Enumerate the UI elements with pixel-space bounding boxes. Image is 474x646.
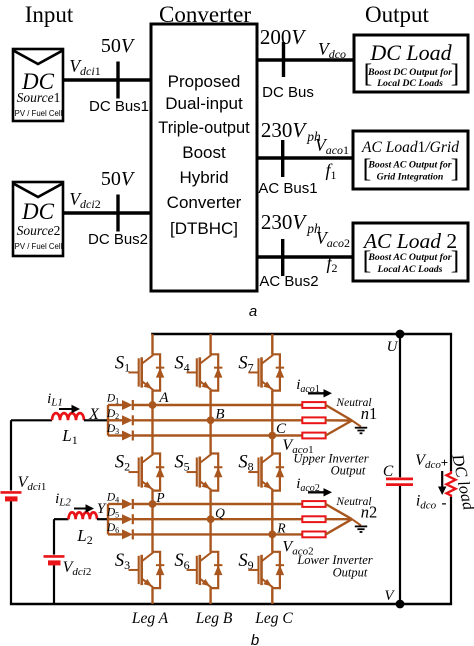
svg-text:DC: DC <box>21 199 55 224</box>
svg-text:Vdci1: Vdci1 <box>69 56 100 78</box>
svg-text:Y: Y <box>97 501 107 517</box>
wire input1 left rail upper <box>10 420 12 490</box>
wire row D4 left <box>108 503 122 505</box>
svg-text:f1: f1 <box>325 160 336 182</box>
wire capacitor rail upper <box>399 334 401 477</box>
wire row D1 to loads <box>133 404 302 406</box>
transistor S3 <box>129 552 165 588</box>
svg-text:Output: Output <box>365 2 430 27</box>
wire leg C collector from bus <box>271 334 273 354</box>
wire row D5 left <box>108 518 122 520</box>
svg-text:Proposed: Proposed <box>168 72 241 91</box>
svg-text:Source2: Source2 <box>17 223 61 238</box>
node Y bar <box>107 504 109 534</box>
load resistor phase 2 (inverter 2) <box>302 516 325 522</box>
wire bottom return bus <box>10 603 452 606</box>
svg-text:Dual-input: Dual-input <box>165 94 243 113</box>
svg-text:b: b <box>251 632 259 646</box>
wire row D4 to loads <box>133 503 302 505</box>
svg-text:S9: S9 <box>238 551 253 572</box>
node X bar <box>107 405 109 436</box>
wire row D5 to loads <box>133 518 302 520</box>
diode D2 <box>122 415 133 425</box>
svg-text:D2: D2 <box>106 408 119 421</box>
arrow iL2 <box>74 504 94 512</box>
svg-text:Vdci2: Vdci2 <box>63 559 92 578</box>
wire leg C segment 1 <box>271 391 273 454</box>
svg-text:Vaco2: Vaco2 <box>316 228 350 250</box>
svg-text:]: ] <box>451 246 460 275</box>
svg-text:B: B <box>215 407 224 423</box>
svg-text:idco: idco <box>416 493 437 512</box>
wire Vdci2 to converter <box>63 211 151 214</box>
svg-text:Source1: Source1 <box>17 90 61 105</box>
arrow idco <box>438 471 446 495</box>
svg-text:Triple-output: Triple-output <box>158 119 250 137</box>
wire row D6 left <box>108 533 122 535</box>
svg-text:PV / Fuel Cell: PV / Fuel Cell <box>15 242 63 251</box>
svg-text:DC Bus1: DC Bus1 <box>89 98 149 115</box>
node P <box>149 500 157 508</box>
transistor S4 <box>187 354 223 390</box>
AC Bus2 tick <box>281 239 284 276</box>
ground n2 <box>355 526 367 532</box>
svg-text:AC Load1/Grid: AC Load1/Grid <box>361 139 459 156</box>
inductor L1 <box>52 413 84 420</box>
svg-text:D5: D5 <box>106 507 119 520</box>
transistor S7 <box>248 354 284 390</box>
wire leg A segment 2 <box>151 491 153 552</box>
battery Vdci2 <box>44 556 65 563</box>
transistor S5 <box>187 454 223 491</box>
wire input1 left rail lower <box>10 501 12 604</box>
svg-text:iL2: iL2 <box>55 491 71 509</box>
wire row D3 to loads <box>133 434 302 436</box>
transistor S1 <box>129 354 165 390</box>
svg-text:50V: 50V <box>101 35 136 57</box>
DC source 1 box <box>13 49 63 121</box>
node B <box>207 416 215 424</box>
svg-text:P: P <box>155 490 164 505</box>
svg-text:Leg A: Leg A <box>131 610 169 627</box>
svg-text:S5: S5 <box>174 453 189 474</box>
node V <box>396 600 405 609</box>
wire leg C segment 2 <box>271 491 273 552</box>
svg-text:Converter: Converter <box>167 193 242 212</box>
wire leg A segment 1 <box>151 391 153 454</box>
svg-text:Output: Output <box>333 566 368 580</box>
diode D6 <box>122 529 133 539</box>
svg-text:Vdco: Vdco <box>415 452 441 471</box>
load resistor phase 3 (inverter 1) <box>302 433 325 439</box>
wire input2 rail upper <box>53 519 55 554</box>
diode D5 <box>122 514 133 524</box>
wire row D3 left <box>108 434 122 436</box>
node A <box>149 401 157 409</box>
svg-text:Vaco1: Vaco1 <box>315 135 349 157</box>
svg-text:AC Bus2: AC Bus2 <box>259 273 318 290</box>
node Q <box>207 515 215 523</box>
diode D1 <box>122 400 133 410</box>
svg-text:AC Load 2: AC Load 2 <box>362 229 457 253</box>
svg-text:PV / Fuel Cell: PV / Fuel Cell <box>15 109 63 118</box>
svg-text:DC Bus2: DC Bus2 <box>88 231 148 248</box>
DC source 2 box <box>13 182 63 256</box>
wire load 1 to n2 <box>326 504 352 519</box>
wire leg C emitter to bottom bus <box>271 588 273 604</box>
svg-text:Boost: Boost <box>182 143 226 162</box>
wire input1 horizontal <box>11 419 52 421</box>
svg-text:Input: Input <box>25 2 74 27</box>
svg-text:D1: D1 <box>106 393 119 406</box>
svg-text:Vdco: Vdco <box>318 39 346 61</box>
svg-text:S4: S4 <box>174 353 189 374</box>
wire leg B collector from bus <box>209 334 211 354</box>
wire leg B emitter to bottom bus <box>209 588 211 604</box>
svg-text:50V: 50V <box>101 168 136 190</box>
converter block DTBHC <box>151 24 257 291</box>
battery Vdci1 <box>1 492 22 499</box>
wire input2 horizontal <box>54 518 69 520</box>
wire load 2 to n1 <box>326 419 352 422</box>
svg-text:-: - <box>442 496 447 512</box>
load resistor phase 2 (inverter 1) <box>302 417 325 423</box>
transistor S9 <box>248 552 284 588</box>
svg-text:R: R <box>276 521 286 536</box>
wire n1 stub <box>352 421 361 427</box>
arrow iaco2 <box>308 488 332 496</box>
wire load 3 to n2 <box>326 519 352 534</box>
svg-text:S8: S8 <box>238 453 253 474</box>
arrow iaco1 <box>308 389 332 397</box>
wire Vaco2 to AC load2 <box>257 255 353 258</box>
transistor S8 <box>248 454 284 491</box>
node U <box>396 330 405 339</box>
svg-text:Grid Integration: Grid Integration <box>377 172 444 183</box>
AC Load1/Grid box <box>353 131 468 189</box>
DC Bus tick <box>282 42 285 77</box>
diode D3 <box>122 431 133 441</box>
wire leg B segment 1 <box>209 391 211 454</box>
svg-text:Vdci1: Vdci1 <box>18 474 47 493</box>
svg-text:S1: S1 <box>115 353 130 374</box>
load resistor phase 1 (inverter 2) <box>302 501 325 507</box>
wire input2 rail lower <box>53 565 55 604</box>
svg-text:Vdci2: Vdci2 <box>69 189 100 211</box>
svg-text:n2: n2 <box>361 503 378 522</box>
wire capacitor rail lower <box>399 486 401 604</box>
wire row D2 to loads <box>133 419 302 421</box>
svg-text:+: + <box>441 455 448 470</box>
transistor S6 <box>187 552 223 588</box>
svg-text:C: C <box>383 463 394 480</box>
svg-text:L1: L1 <box>61 426 77 447</box>
wire row D1 left <box>108 404 122 406</box>
wire load 2 to n2 <box>326 518 352 520</box>
svg-text:A: A <box>158 390 169 406</box>
svg-text:S3: S3 <box>115 551 130 572</box>
svg-text:Leg C: Leg C <box>254 610 293 627</box>
wire right rail lower <box>450 497 452 604</box>
AC Bus1 tick <box>281 140 284 177</box>
wire leg A emitter to bottom bus <box>151 588 153 604</box>
svg-text:S2: S2 <box>115 453 130 474</box>
load resistor phase 1 (inverter 1) <box>302 402 325 408</box>
svg-text:Boost DC Output for: Boost DC Output for <box>367 67 452 78</box>
svg-text:230V: 230V <box>261 210 308 234</box>
svg-text:S6: S6 <box>174 551 189 572</box>
svg-text:S7: S7 <box>238 353 253 374</box>
svg-text:230V: 230V <box>261 118 308 142</box>
wire L2 to Y <box>97 518 108 520</box>
svg-text:n1: n1 <box>361 404 378 423</box>
wire row D6 to loads <box>133 533 302 535</box>
svg-text:Boost AC Output for: Boost AC Output for <box>367 252 451 263</box>
wire Vdco to DC load <box>257 58 354 61</box>
svg-text:Local AC Loads: Local AC Loads <box>377 264 443 275</box>
capacitor C <box>386 479 413 485</box>
wire right rail upper <box>450 334 452 471</box>
arrow iL1 <box>59 405 80 413</box>
svg-text:Output: Output <box>331 464 366 478</box>
resistor DC load <box>446 471 455 497</box>
svg-text:Q: Q <box>215 506 225 521</box>
svg-text:X: X <box>88 406 100 423</box>
wire load 1 to n1 <box>326 405 352 421</box>
svg-text:DC Bus: DC Bus <box>262 84 314 101</box>
svg-text:Hybrid: Hybrid <box>179 168 228 187</box>
node R <box>268 531 276 539</box>
wire n2 stub <box>352 519 361 525</box>
transistor S2 <box>129 454 165 491</box>
AC Load 2 box <box>353 223 468 281</box>
DC Load box <box>354 35 468 92</box>
inductor L2 <box>69 512 97 519</box>
wire top DC bus <box>151 333 452 336</box>
svg-text:Boost AC Output for: Boost AC Output for <box>367 160 451 171</box>
diode D4 <box>122 499 133 509</box>
wire leg A collector from bus <box>151 334 153 354</box>
DC Bus1 tick <box>116 62 119 99</box>
svg-text:Local DC Loads: Local DC Loads <box>376 78 443 89</box>
svg-text:iL1: iL1 <box>47 391 63 409</box>
wire L1 to X <box>84 419 108 421</box>
wire Vaco1 to AC load1 <box>257 156 353 159</box>
svg-text:L2: L2 <box>76 526 92 547</box>
svg-text:D4: D4 <box>106 492 119 505</box>
ground n1 <box>355 428 367 434</box>
svg-text:Leg B: Leg B <box>195 610 233 627</box>
wire Vdci1 to converter <box>63 78 151 81</box>
node C <box>268 432 276 440</box>
wire load 3 to n1 <box>326 421 352 436</box>
svg-text:C: C <box>276 421 287 437</box>
svg-text:[DTBHC]: [DTBHC] <box>170 219 238 238</box>
svg-text:]: ] <box>451 154 460 183</box>
svg-text:D3: D3 <box>106 423 119 436</box>
svg-text:AC Bus1: AC Bus1 <box>258 180 317 197</box>
svg-text:D6: D6 <box>106 522 119 535</box>
svg-text:V: V <box>384 588 395 604</box>
svg-text:a: a <box>249 303 257 320</box>
svg-text:200V: 200V <box>260 25 307 49</box>
svg-text:DC Load: DC Load <box>369 40 452 65</box>
load resistor phase 3 (inverter 2) <box>302 532 325 538</box>
svg-text:U: U <box>387 339 399 355</box>
DC Bus2 tick <box>116 195 119 232</box>
wire row D2 left <box>108 419 122 421</box>
wire leg B segment 2 <box>209 491 211 552</box>
